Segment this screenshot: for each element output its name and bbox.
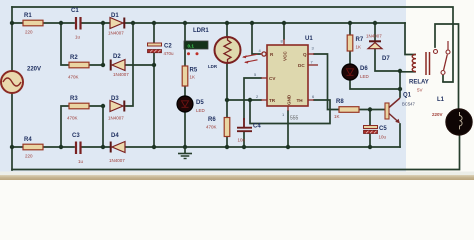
svg-text:R5: R5 <box>190 68 198 74</box>
diode D4 1N4007 <box>109 133 125 163</box>
node: R7 rail junction <box>348 21 352 25</box>
svg-text:220: 220 <box>25 30 33 35</box>
svg-text:LED: LED <box>196 108 206 113</box>
pin 5 CV <box>261 77 267 79</box>
resistor R8 1K <box>334 99 359 119</box>
svg-text:1K: 1K <box>190 75 196 80</box>
svg-text:LED: LED <box>360 74 370 79</box>
resistor R6 470K <box>206 117 230 137</box>
svg-text:D6: D6 <box>360 66 368 72</box>
wire: D3 cathode to +V rail vertical <box>126 23 133 106</box>
node: D5 ground junction <box>183 145 187 149</box>
wire: emitter to ground rail <box>399 124 401 147</box>
node: LDR rail junction <box>225 21 229 25</box>
selection highlight area <box>0 0 406 172</box>
svg-text:220V: 220V <box>27 67 41 73</box>
svg-text:R1: R1 <box>24 13 32 19</box>
svg-text:1N4007: 1N4007 <box>108 116 124 121</box>
svg-text:C3: C3 <box>72 133 80 139</box>
svg-text:555: 555 <box>290 116 299 122</box>
resistor R7 1K <box>347 35 364 51</box>
pin 8 VCC <box>283 39 285 45</box>
svg-text:C2: C2 <box>164 44 172 50</box>
svg-text:D2: D2 <box>113 54 121 60</box>
svg-text:1N4007: 1N4007 <box>109 158 125 163</box>
relay RL1 coil <box>409 52 430 93</box>
wire: LDR branch <box>226 23 228 100</box>
node: A bottom junction <box>101 63 105 67</box>
node: A top junction <box>101 21 105 25</box>
svg-text:10n: 10n <box>238 138 246 143</box>
svg-text:D7: D7 <box>382 56 390 62</box>
U1 pin stubs and numbers <box>254 39 318 118</box>
resistor R2 470K <box>68 55 89 80</box>
svg-text:BC547: BC547 <box>402 102 415 107</box>
resistor R4 220 <box>23 137 43 159</box>
svg-text:1K: 1K <box>356 45 362 50</box>
svg-text:R7: R7 <box>356 37 364 43</box>
node: D6/collector junction <box>398 87 402 91</box>
diode D3 1N4007 <box>108 96 124 121</box>
wire: node A vertical <box>102 23 104 65</box>
wire: left rail x12 <box>11 7 13 170</box>
node: VCC rail junction <box>282 21 286 25</box>
svg-text:C5: C5 <box>379 126 387 132</box>
node: C2 rail ground junction <box>152 145 156 149</box>
LED D6 <box>342 64 370 80</box>
svg-text:LDR: LDR <box>208 64 218 69</box>
svg-text:470K: 470K <box>67 116 78 121</box>
svg-text:RELAY: RELAY <box>409 80 429 86</box>
capacitor C5 10u electrolytic <box>364 126 388 140</box>
diode D7 1N4007 flyback <box>366 34 390 63</box>
node: R3/R4/C3 junction <box>59 145 63 149</box>
wire: lamp top feed to contact <box>435 24 459 109</box>
svg-text:GND: GND <box>287 94 292 105</box>
svg-text:D4: D4 <box>111 133 119 139</box>
pin 6 TH <box>308 99 314 101</box>
node: D7 rail junction <box>373 21 377 25</box>
svg-text:R6: R6 <box>208 117 216 123</box>
svg-text:TR: TR <box>269 98 276 103</box>
node: reset rail junction <box>250 21 254 25</box>
wire: reset pin to rail <box>252 23 260 54</box>
svg-text:LDR1: LDR1 <box>193 28 209 34</box>
wire: D6 cathode to collector node <box>350 80 400 89</box>
svg-text:R2: R2 <box>70 55 78 61</box>
svg-text:0.1: 0.1 <box>188 43 195 48</box>
svg-text:1N4007: 1N4007 <box>108 31 124 36</box>
svg-text:1K: 1K <box>334 114 340 119</box>
node: coil/D7/collector junction <box>398 69 402 73</box>
wire: R3 branch vertical <box>61 106 103 147</box>
wire: node B vertical <box>102 106 104 147</box>
node: R6 ground junction <box>225 145 229 149</box>
pin 3 Q <box>308 53 314 55</box>
svg-text:470K: 470K <box>68 75 79 80</box>
svg-text:1N4007: 1N4007 <box>113 72 129 77</box>
svg-text:C4: C4 <box>253 124 261 130</box>
wire: mains live top line from source to relay pole <box>12 7 453 82</box>
node: trigger-TH junction <box>248 98 252 102</box>
svg-text:220: 220 <box>25 154 33 159</box>
svg-text:DC: DC <box>298 63 305 68</box>
capacitor C4 10n <box>237 118 261 143</box>
svg-text:D3: D3 <box>111 96 119 102</box>
svg-text:TH: TH <box>297 98 304 103</box>
node: 555 ground junction <box>286 145 290 149</box>
svg-text:1N4007: 1N4007 <box>366 34 382 39</box>
capacitor C1 1u <box>71 8 81 40</box>
pin 4 reset with bubble <box>260 53 262 55</box>
wire: VCC pin to rail <box>283 23 285 39</box>
node: rail-R1-source junction <box>10 21 14 25</box>
wire: D2 anode to ground node <box>125 64 154 66</box>
node: C5 ground junction <box>368 145 372 149</box>
capacitor C3 1u <box>72 133 84 164</box>
wire: D7 leads <box>375 23 400 71</box>
node: R8/C5 junction <box>368 107 372 111</box>
wire: relay coil bottom to collector <box>400 71 415 97</box>
resistor R5 1K <box>182 66 198 86</box>
wire: row1 R1-C1-D1 <box>12 22 405 24</box>
node: trigger-LDR junction <box>225 98 229 102</box>
svg-text:Q: Q <box>303 52 307 57</box>
wire: trigger node to TR pin <box>227 99 261 101</box>
capacitor C2 470u electrolytic <box>148 43 175 56</box>
pin 2 TR <box>261 99 267 101</box>
svg-text:VCC: VCC <box>283 51 288 61</box>
resistor R1 <box>23 13 43 35</box>
svg-text:10u: 10u <box>379 135 387 140</box>
LDR1 interactive display <box>184 28 218 69</box>
node: C2 ground junction <box>152 63 156 67</box>
svg-text:5V: 5V <box>417 88 423 93</box>
wire: R7 to D6 <box>349 23 351 64</box>
diode D1 1N4007 <box>108 13 124 36</box>
wire: GND pin to ground rail <box>287 111 289 147</box>
resistor R3 470K <box>67 96 89 121</box>
LDR1 photoresistor <box>215 37 258 64</box>
pin 1 GND <box>287 106 289 111</box>
sheet background <box>0 0 474 180</box>
svg-text:C1: C1 <box>71 8 79 14</box>
node: C4 ground junction <box>242 145 246 149</box>
lamp L1 220V <box>432 97 472 135</box>
svg-text:1u: 1u <box>75 35 81 40</box>
AC source V1 220V <box>1 67 41 94</box>
wire: R6 branch <box>226 100 228 147</box>
wire: R2 branch vertical <box>61 23 103 65</box>
transition band <box>0 172 474 176</box>
wire: C4 bottom lead <box>243 132 245 148</box>
node: C2 rail junction <box>152 21 156 25</box>
svg-text:D5: D5 <box>196 100 204 106</box>
LED D5 <box>177 96 206 113</box>
wire: lamp return bottom line <box>12 135 460 170</box>
wire: C5 leads <box>369 110 371 148</box>
node: B top junction <box>101 104 105 108</box>
wire: CV pin branch <box>244 78 261 119</box>
wire: row4 R4-C3-D4 and ground rail <box>12 146 400 148</box>
node: R5 rail junction <box>183 21 187 25</box>
node: B bottom junction <box>101 145 105 149</box>
svg-text:R8: R8 <box>336 99 344 105</box>
wire: C2 leads and ground drop <box>153 23 155 147</box>
svg-text:D1: D1 <box>111 13 119 19</box>
node: D3 rail junction <box>131 21 135 25</box>
svg-text:Q1: Q1 <box>403 93 412 99</box>
relay contacts <box>434 41 451 82</box>
node: R1/C1/R2 junction <box>59 21 63 25</box>
diode D2 1N4007 <box>111 54 130 77</box>
svg-text:1u: 1u <box>78 159 84 164</box>
svg-text:470u: 470u <box>164 51 175 56</box>
svg-text:220V: 220V <box>432 112 443 117</box>
svg-text:R4: R4 <box>24 137 32 143</box>
wire: +V rail corner to relay coil <box>405 23 415 55</box>
svg-text:R3: R3 <box>70 96 78 102</box>
wire: R5 D5 branch <box>184 23 186 147</box>
ground <box>178 147 192 159</box>
wire: output pin3 to R8 <box>314 54 385 110</box>
svg-text:CV: CV <box>269 76 276 81</box>
svg-text:U1: U1 <box>305 36 313 42</box>
op-amp U1 555 timer body <box>267 36 313 122</box>
pin 7 DC <box>308 64 318 66</box>
transistor Q1 BC547 <box>385 93 415 124</box>
svg-text:L1: L1 <box>437 97 445 103</box>
node: neutral bottom junction <box>10 145 14 149</box>
wire: TH loop to trigger node <box>250 100 330 124</box>
svg-text:470K: 470K <box>206 125 217 130</box>
